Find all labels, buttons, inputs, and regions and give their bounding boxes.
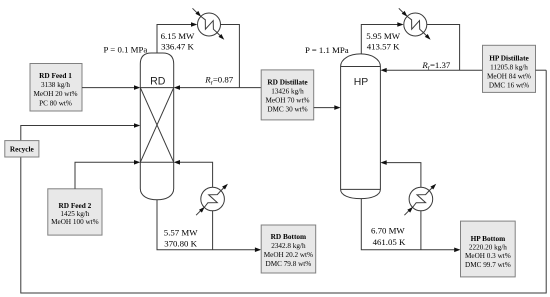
svg-text:DMC 99.7 wt%: DMC 99.7 wt% [465,261,511,269]
arrow into condenser E3 [397,22,403,27]
box RD Feed 2 [48,189,102,235]
svg-text:2342.8 kg/h: 2342.8 kg/h [271,242,306,250]
svg-text:RD: RD [150,76,166,88]
arrow into RD (recycle) [134,123,140,128]
wire RD distillate / reflux [177,87,261,89]
svg-text:RD Feed 1: RD Feed 1 [39,71,72,80]
arrow into RD (feed 1) [134,85,140,90]
svg-text:3138 kg/h: 3138 kg/h [41,81,70,89]
condenser E1 [193,8,225,40]
svg-text:336.47 K: 336.47 K [161,42,194,52]
arrow into condenser E1 [191,22,197,27]
wire HP top to condenser [361,25,400,54]
svg-text:MeOH 70 wt%: MeOH 70 wt% [266,96,310,104]
RD packing X [140,88,173,163]
svg-text:HP: HP [354,77,369,88]
svg-text:DMC 16 wt%: DMC 16 wt% [489,81,529,89]
E2 outlet arrow [221,186,226,191]
svg-text:P = 1.1 MPa: P = 1.1 MPa [305,45,349,55]
box RD Bottom [261,225,316,273]
svg-text:DMC 79.8 wt%: DMC 79.8 wt% [266,260,312,268]
wire HP reboiler return [384,163,421,188]
E3 outlet arrow [423,33,428,38]
wire RD feed 2 [75,162,137,189]
arrow into HP (feed) [334,105,340,110]
wire condenser E3 to reflux junction [427,25,460,71]
box RD Feed 1 [30,64,82,112]
E3 inlet arrow [399,8,405,14]
wire RD distillate to HP feed [314,107,338,109]
E4 inlet arrow [404,209,410,215]
svg-text:MeOH 0.3 wt%: MeOH 0.3 wt% [465,252,511,260]
svg-text:P = 0.1 MPa: P = 0.1 MPa [104,45,148,55]
arrow reboil return into HP [380,160,386,165]
svg-text:461.05 K: 461.05 K [373,237,406,247]
wire RD bottoms [157,200,258,250]
arrow into RD (feed 2) [134,160,140,165]
HP dish top line [341,188,381,190]
wire condenser E1 to reflux junction [221,25,240,88]
svg-text:2220.20 kg/h: 2220.20 kg/h [469,244,507,252]
E1 outlet arrow [217,33,222,38]
svg-text:5.57 MW: 5.57 MW [164,228,198,238]
box HP Distillate [483,45,536,92]
arrow into HP Bottom box [454,248,460,253]
RD packing top line [140,87,173,89]
svg-text:11205.8 kg/h: 11205.8 kg/h [490,64,528,72]
svg-text:1425 kg/h: 1425 kg/h [60,210,89,218]
wire RD top to condenser [157,25,194,54]
svg-text:HP Bottom: HP Bottom [471,234,506,243]
svg-text:RD Feed 2: RD Feed 2 [58,201,91,210]
svg-text:13426 kg/h: 13426 kg/h [271,88,304,96]
svg-text:MeOH 20 wt%: MeOH 20 wt% [34,90,78,98]
wire recycle bottom bus [21,70,546,293]
E2 inlet arrow [196,209,202,215]
svg-text:MeOH 84 wt%: MeOH 84 wt% [487,72,531,80]
wire HP bottoms [361,199,457,250]
arrow reboil return into RD [174,160,180,165]
wire HP reboiler riser [420,211,422,250]
svg-text:6.70 MW: 6.70 MW [371,226,405,236]
svg-text:RD Bottom: RD Bottom [271,232,306,241]
svg-text:MeOH 20.2 wt%: MeOH 20.2 wt% [264,251,313,259]
HP dome base line [341,66,381,68]
box HP Bottom [461,221,516,277]
wire HP distillate / reflux [384,69,483,71]
svg-text:MeOH 100 wt%: MeOH 100 wt% [51,218,99,226]
E4 outlet arrow [429,186,434,191]
svg-text:413.57 K: 413.57 K [367,41,400,51]
column RD vessel [140,53,173,200]
reboiler E2 [196,184,228,216]
condenser E3 [399,8,431,40]
wire RD reboiler riser [212,211,214,250]
box Recycle [5,141,39,157]
box RD Distillate [261,70,314,120]
arrow reflux into HP [380,68,386,73]
column HP vessel [341,54,381,199]
svg-text:370.80 K: 370.80 K [164,239,197,249]
svg-text:5.95 MW: 5.95 MW [366,31,400,41]
svg-text:RD Distillate: RD Distillate [267,78,308,87]
wire RD feed 1 [82,87,137,89]
svg-text:DMC 30 wt%: DMC 30 wt% [267,105,307,113]
arrow into RD Bottom box [255,247,261,252]
wire HP distillate box to recycle drop [536,69,547,71]
svg-text:Recycle: Recycle [10,144,35,153]
arrow reflux into RD [174,85,180,90]
RD packing bottom line [140,161,173,163]
wire recycle to RD column [21,126,137,141]
wire RD reboiler return [177,162,213,187]
svg-text:PC 80 wt%: PC 80 wt% [39,99,72,107]
E1 inlet arrow [193,8,199,14]
reboiler E4 [404,184,436,216]
svg-text:HP Distillate: HP Distillate [489,54,529,63]
svg-text:6.15 MW: 6.15 MW [161,31,195,41]
